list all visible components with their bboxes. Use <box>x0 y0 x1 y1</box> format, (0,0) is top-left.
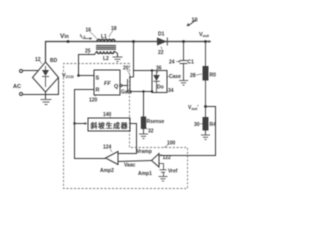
svg-text:Do: Do <box>157 85 164 91</box>
svg-text:L2: L2 <box>103 56 109 62</box>
voltage source Vref <box>159 164 167 177</box>
wire main top rail Vin to Vout <box>46 42 211 63</box>
node C1 junction dot <box>182 40 185 43</box>
svg-text:Rsense: Rsense <box>147 119 165 125</box>
svg-text:30: 30 <box>194 122 200 128</box>
svg-text:12: 12 <box>35 57 41 63</box>
wire ramp output Vramp to Amp2 <box>118 124 137 154</box>
svg-text:24: 24 <box>169 60 175 66</box>
wire Vout' feedback loop to Amp1 <box>159 107 216 156</box>
node drain junction dot <box>132 40 135 43</box>
svg-text:L1: L1 <box>101 34 107 40</box>
svg-text:Vramp: Vramp <box>137 149 152 155</box>
AC terminal bottom <box>20 93 23 96</box>
svg-text:120: 120 <box>89 98 98 104</box>
node VZCD dot <box>77 74 80 77</box>
wire drain to case box <box>134 70 153 72</box>
transformer core <box>96 46 116 50</box>
svg-text:FF: FF <box>104 81 111 87</box>
svg-text:D1: D1 <box>158 32 165 38</box>
svg-text:Amp2: Amp2 <box>100 168 114 174</box>
node case bottom-left dot <box>151 90 153 92</box>
svg-text:BD: BD <box>50 58 58 64</box>
wire bridge bottom to ground <box>45 92 47 99</box>
comparator Amp2 <box>106 152 119 165</box>
FF output bubble <box>120 84 122 86</box>
arrow main rail end <box>209 40 212 43</box>
current arrow iL1 <box>83 37 92 39</box>
svg-text:R: R <box>96 88 100 94</box>
node source-Rsense dot <box>142 90 144 92</box>
transistor Q 20 MOSFET <box>128 76 134 94</box>
svg-text:Gate: Gate <box>121 90 132 96</box>
svg-text:22: 22 <box>158 50 164 56</box>
svg-text:18: 18 <box>111 26 117 32</box>
svg-text:Q: Q <box>114 84 119 90</box>
op-amp Amp1 <box>152 154 160 168</box>
wire FF Q to gate <box>122 85 127 87</box>
svg-text:28: 28 <box>190 73 196 79</box>
svg-text:Case: Case <box>169 74 181 80</box>
ground C1 <box>179 81 188 86</box>
bridge internal diode <box>42 66 49 87</box>
resistor R0 <box>203 42 208 107</box>
svg-text:S: S <box>96 76 100 82</box>
svg-text:34: 34 <box>168 88 174 94</box>
inductor L2 winding <box>97 51 114 53</box>
ground Rsense <box>139 134 148 139</box>
wire source line to case box <box>134 91 153 93</box>
svg-text:36: 36 <box>156 66 162 72</box>
ground Vref <box>159 177 168 182</box>
svg-text:Vout: Vout <box>199 32 210 38</box>
bridge rectifier BD diamond <box>33 62 59 92</box>
wire Amp2 output to FF R input with ramp branch <box>75 90 106 159</box>
svg-text:100: 100 <box>167 141 176 147</box>
resistor R4 <box>203 107 208 135</box>
ground bridge <box>41 100 52 105</box>
node case top-left dot <box>151 69 153 71</box>
diode D1 <box>157 38 167 46</box>
wire VZCD to S input <box>79 75 95 77</box>
case box 34 <box>152 71 167 93</box>
inductor L1 winding <box>97 39 115 41</box>
wire drain to top rail <box>133 42 135 78</box>
svg-text:32: 32 <box>148 129 154 135</box>
IC dashed box 100 <box>64 64 188 189</box>
wire source to Rsense <box>143 92 145 118</box>
node Vin dot <box>67 40 70 43</box>
svg-text:斜坡生成器: 斜坡生成器 <box>90 121 128 130</box>
svg-text:Vref: Vref <box>168 169 178 175</box>
capacitor C1 <box>180 42 188 81</box>
node ramp branch dot <box>73 122 75 124</box>
wire AC bottom to bridge right vertex <box>23 78 59 95</box>
node Vout dot <box>204 40 207 43</box>
flip-flop FF box <box>94 70 120 95</box>
figure ref arrow 10 <box>187 18 198 27</box>
wire AC top to bridge <box>23 70 39 72</box>
svg-text:122: 122 <box>163 155 172 161</box>
ground L2 <box>113 57 123 62</box>
svg-text:20: 20 <box>123 66 129 72</box>
diode Do body diode <box>153 71 160 93</box>
wire Vaac Amp1 out to Amp2 input <box>118 161 152 162</box>
wire L2 left end ZCD <box>79 51 98 76</box>
node Vout' dot <box>204 105 207 108</box>
AC terminal top <box>20 70 23 73</box>
svg-text:AC: AC <box>13 84 21 90</box>
svg-text:C1: C1 <box>188 60 195 66</box>
svg-text:25: 25 <box>85 49 91 55</box>
ramp generator box 140 <box>88 118 130 131</box>
svg-text:Amp1: Amp1 <box>138 171 152 177</box>
svg-text:Vaac: Vaac <box>124 163 136 169</box>
resistor Rsense <box>141 117 145 134</box>
svg-text:10: 10 <box>192 18 198 24</box>
wire branch into ramp generator <box>75 123 86 125</box>
svg-text:Vin: Vin <box>60 33 69 40</box>
svg-text:R0: R0 <box>210 73 217 79</box>
ground R4 <box>201 135 210 140</box>
wire L2 right end to ground <box>114 51 118 57</box>
